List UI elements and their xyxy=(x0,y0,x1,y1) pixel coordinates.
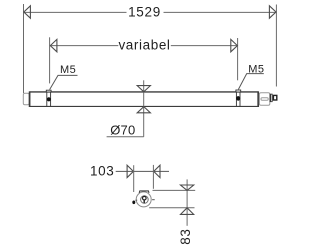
diameter 70 arrow top xyxy=(137,86,150,92)
dimension 103 extension line left xyxy=(133,165,135,192)
end view right tick xyxy=(152,199,155,201)
svg-text:83: 83 xyxy=(178,228,193,244)
right axle pin ring xyxy=(273,95,276,100)
tube right crown cap xyxy=(259,93,269,106)
tube body bottom line xyxy=(30,105,259,107)
dimension 103 arrow left xyxy=(127,165,133,177)
svg-text:103: 103 xyxy=(90,163,114,178)
svg-text:M5: M5 xyxy=(60,64,76,76)
dimension variabel arrow left xyxy=(50,39,57,51)
screw M5 left shaft xyxy=(47,92,51,106)
screw M5 right shaft xyxy=(236,92,240,106)
dimension 83 arrow top xyxy=(181,185,194,190)
svg-text:Ø70: Ø70 xyxy=(110,123,135,138)
M5 leader left xyxy=(50,75,78,89)
end view left tick xyxy=(135,199,137,201)
dimension 1529 arrow right xyxy=(269,6,276,18)
end view inner circle xyxy=(141,196,149,204)
tube right end wall xyxy=(257,91,259,107)
end view key circle xyxy=(143,196,147,200)
dimension 1529 arrow left xyxy=(24,6,31,18)
diameter 70 arrow bottom xyxy=(137,107,150,113)
tube right crown slot xyxy=(261,98,268,100)
dimension variabel line xyxy=(50,45,238,47)
dimension 83 reference line bottom xyxy=(149,207,194,209)
svg-text:variabel: variabel xyxy=(118,38,170,53)
svg-text:1529: 1529 xyxy=(128,4,161,19)
screw M5 right head xyxy=(236,90,241,92)
dimension 1529 line xyxy=(24,11,277,13)
right axle joint gap xyxy=(270,95,272,102)
dimension 103 extension line right xyxy=(152,165,154,189)
dimension variabel extension line right xyxy=(237,38,239,80)
screw M5 left dot xyxy=(47,97,51,101)
end view key stem xyxy=(143,199,145,203)
dimension variabel arrow right xyxy=(231,39,238,51)
end view outer circle xyxy=(136,192,151,207)
screw M5 left head xyxy=(46,90,51,92)
tube body top line xyxy=(30,91,259,93)
dimension 1529 extension line right xyxy=(275,5,277,87)
dimension 83 arrow bottom xyxy=(181,208,194,215)
end view top bracket xyxy=(139,191,149,193)
end view cable drop xyxy=(132,201,135,205)
right axle joint xyxy=(270,94,273,102)
tube left end wall xyxy=(29,91,31,107)
dimension 83 vertical line xyxy=(186,179,188,225)
dimension variabel extension line left xyxy=(49,37,51,83)
screw M5 right dot xyxy=(236,96,240,101)
tube left end cap xyxy=(23,93,29,105)
dimension 103 arrow right xyxy=(154,165,160,177)
M5 leader right xyxy=(238,74,263,90)
dimension 1529 extension line left xyxy=(23,4,25,93)
diameter 70 shoulder line xyxy=(107,136,144,138)
dimension 103 line xyxy=(116,170,169,172)
diameter 70 vertical line xyxy=(143,80,145,137)
dimension 83 reference line top xyxy=(153,189,196,191)
